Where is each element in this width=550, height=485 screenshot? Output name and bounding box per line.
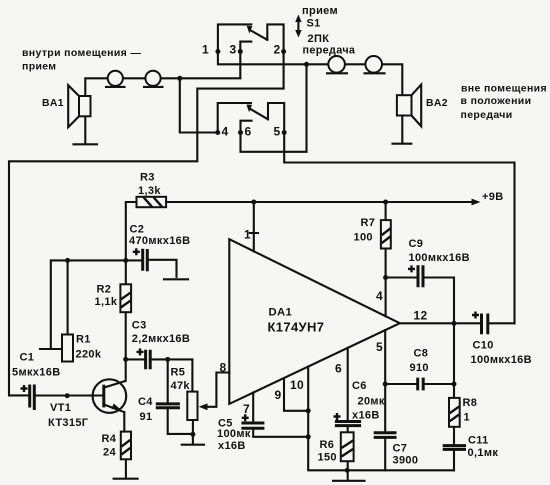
svg-text:прием: прием: [302, 5, 338, 17]
svg-text:7: 7: [243, 402, 250, 416]
svg-text:12: 12: [414, 309, 428, 323]
svg-text:1: 1: [244, 228, 251, 242]
svg-text:10: 10: [290, 378, 304, 392]
svg-text:C2: C2: [130, 224, 145, 236]
svg-text:C9: C9: [409, 238, 424, 250]
svg-text:1,1k: 1,1k: [95, 296, 118, 308]
svg-text:5: 5: [274, 125, 281, 139]
svg-text:R7: R7: [361, 217, 376, 229]
svg-text:150: 150: [318, 452, 337, 464]
svg-text:в положении: в положении: [461, 95, 532, 107]
svg-text:47k: 47k: [171, 380, 191, 392]
svg-text:C6: C6: [352, 380, 367, 392]
svg-text:100мк: 100мк: [217, 428, 251, 440]
svg-text:BA2: BA2: [426, 98, 448, 109]
svg-text:S1: S1: [307, 18, 321, 30]
svg-text:R3: R3: [140, 172, 155, 184]
svg-text:2,2мкх16В: 2,2мкх16В: [132, 333, 190, 345]
svg-text:2: 2: [274, 43, 281, 57]
svg-text:100мкх16В: 100мкх16В: [471, 354, 532, 366]
svg-text:910: 910: [410, 362, 429, 374]
svg-text:1: 1: [202, 43, 209, 57]
svg-text:6: 6: [245, 125, 252, 139]
svg-text:R4: R4: [102, 433, 117, 445]
svg-text:24: 24: [103, 446, 116, 458]
svg-text:1,3k: 1,3k: [138, 185, 161, 197]
svg-text:внутри помещения —: внутри помещения —: [22, 47, 141, 59]
svg-text:220k: 220k: [76, 349, 102, 361]
svg-text:3: 3: [230, 43, 237, 57]
svg-text:C1: C1: [20, 351, 35, 363]
svg-text:C7: C7: [393, 443, 408, 455]
svg-text:3900: 3900: [393, 455, 419, 467]
svg-text:R2: R2: [97, 284, 112, 296]
svg-text:х16В: х16В: [218, 440, 246, 452]
svg-text:C4: C4: [138, 396, 153, 408]
svg-text:передача: передача: [303, 44, 356, 56]
svg-text:х16В: х16В: [352, 410, 380, 422]
svg-text:R5: R5: [171, 367, 186, 379]
svg-text:91: 91: [140, 411, 153, 423]
svg-text:5: 5: [376, 340, 383, 354]
svg-text:1: 1: [464, 411, 470, 423]
svg-text:R1: R1: [76, 334, 91, 346]
svg-text:6: 6: [335, 362, 342, 376]
svg-text:470мкх16В: 470мкх16В: [129, 235, 190, 247]
svg-text:C8: C8: [414, 348, 429, 360]
svg-text:передачи: передачи: [461, 109, 513, 121]
svg-text:100: 100: [354, 231, 373, 243]
svg-text:прием: прием: [22, 61, 56, 73]
svg-text:вне помещения: вне помещения: [461, 83, 547, 95]
svg-text:DA1: DA1: [269, 307, 293, 319]
svg-text:100мкх16В: 100мкх16В: [409, 252, 470, 264]
svg-text:К174УН7: К174УН7: [268, 320, 325, 335]
svg-text:0,1мк: 0,1мк: [468, 447, 499, 459]
svg-text:C10: C10: [473, 340, 494, 352]
svg-text:2ПК: 2ПК: [308, 33, 330, 45]
svg-text:КТ315Г: КТ315Г: [48, 417, 89, 429]
svg-text:C11: C11: [468, 434, 489, 446]
svg-text:5мкх16В: 5мкх16В: [12, 367, 61, 379]
svg-text:9: 9: [275, 388, 282, 402]
svg-text:+9В: +9В: [482, 191, 504, 203]
svg-text:R8: R8: [463, 397, 478, 409]
svg-text:BA1: BA1: [42, 98, 64, 109]
svg-text:R6: R6: [320, 439, 335, 451]
svg-text:VT1: VT1: [50, 402, 71, 414]
svg-text:8: 8: [220, 361, 227, 375]
svg-text:C3: C3: [132, 320, 147, 332]
svg-text:4: 4: [222, 125, 229, 139]
svg-text:20мк: 20мк: [358, 396, 385, 408]
svg-text:4: 4: [376, 289, 383, 303]
